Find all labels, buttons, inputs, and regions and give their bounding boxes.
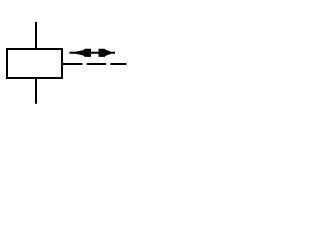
wire (bottom port line) [35,78,37,104]
wire (top port line) [35,22,37,49]
background [0,0,128,128]
double-headed arrow (adjustability symbol) [70,49,116,57]
wire (pilot dashed line, right) [63,63,127,65]
component box (valve body) [7,49,62,78]
